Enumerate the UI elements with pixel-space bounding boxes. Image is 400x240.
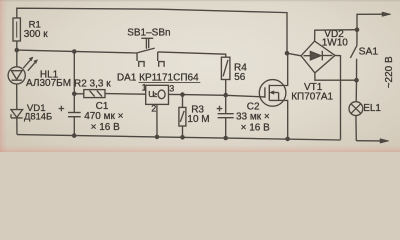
svg-text:300 к: 300 к	[24, 29, 48, 40]
wire bridge top to mains node	[315, 30, 357, 41]
wire LED to VD1	[16, 84, 18, 110]
wire top rail	[17, 8, 287, 53]
svg-text:33 мк ×: 33 мк ×	[236, 112, 270, 123]
label EL1	[363, 103, 381, 114]
resistor R4	[221, 57, 230, 95]
node drain junction	[285, 51, 290, 56]
pin 2 label	[151, 104, 156, 114]
pushbutton SB1-SBn	[137, 38, 164, 67]
label SB1-SBn	[127, 27, 170, 38]
wire mains bottom arrow	[356, 140, 381, 142]
node left rail / button branch	[14, 48, 19, 53]
label SA1	[359, 47, 379, 58]
svg-text:3: 3	[169, 84, 174, 94]
label R1 value	[24, 19, 48, 39]
pin 2 wire	[156, 104, 158, 136]
label VT1	[291, 82, 333, 103]
svg-text:SA1: SA1	[359, 47, 379, 58]
label HL1	[26, 69, 71, 89]
wire left rail to LED	[16, 41, 18, 67]
wire mains top arrow	[357, 14, 383, 30]
transistor VT1 MOSFET	[259, 53, 287, 139]
node SA1 bottom	[354, 78, 359, 83]
switch SA1	[350, 30, 357, 80]
svg-text:470 мк ×: 470 мк ×	[84, 111, 123, 122]
pin 3 label	[169, 84, 174, 94]
resistor R3	[179, 95, 186, 138]
svg-text:× 16 В: × 16 В	[91, 122, 121, 133]
IC DA1	[146, 85, 169, 104]
svg-text:1W10: 1W10	[322, 38, 349, 49]
svg-text:2: 2	[151, 104, 156, 114]
svg-text:× 16 В: × 16 В	[241, 122, 271, 133]
svg-text:≥: ≥	[153, 90, 158, 99]
node R2 branch	[72, 92, 77, 97]
label R3	[187, 105, 209, 125]
wire VD1 to bottom rail	[16, 118, 18, 135]
capacitor C1	[59, 106, 81, 117]
node R3 top	[180, 92, 185, 97]
wire bridge bottom to SA1 node	[315, 73, 357, 80]
svg-text:Д814Б: Д814Б	[24, 110, 52, 121]
label VD2	[322, 29, 349, 48]
wire second rail	[73, 52, 75, 136]
node second rail top	[72, 49, 77, 54]
wire bottom rail	[17, 135, 341, 140]
label C1	[84, 101, 123, 133]
node pin 2 to rail	[155, 135, 160, 140]
svg-text:10 М: 10 М	[187, 114, 209, 125]
node C1 to rail	[72, 133, 77, 138]
node R3 to rail	[180, 135, 185, 140]
capacitor C2	[217, 95, 234, 138]
svg-text:R2 3,3 к: R2 3,3 к	[74, 78, 111, 89]
label DA1 type	[117, 73, 199, 100]
label R2	[74, 78, 111, 89]
svg-text:КП707А1: КП707А1	[291, 92, 333, 103]
wire button feed	[17, 50, 137, 53]
pin 1 label	[142, 83, 147, 93]
svg-text:АЛ307БМ: АЛ307БМ	[26, 78, 71, 89]
svg-text:56: 56	[234, 72, 246, 83]
label R4	[234, 62, 247, 83]
svg-text:~220 В: ~220 В	[384, 56, 395, 88]
wire drain to bridge	[287, 53, 301, 56]
svg-text:EL1: EL1	[363, 103, 381, 114]
svg-text:1: 1	[142, 83, 147, 93]
resistor R1	[13, 18, 20, 41]
label ~220 V	[384, 56, 395, 88]
node C2 to rail	[223, 136, 228, 141]
wire bridge right to bottom rail	[335, 55, 341, 139]
pin 3 wire to gate	[168, 94, 265, 97]
zener VD1	[11, 110, 23, 118]
lamp EL1	[349, 80, 363, 141]
svg-text:SB1–SBn: SB1–SBn	[127, 27, 170, 38]
label C2	[236, 102, 270, 134]
resistor R2	[74, 90, 146, 98]
rectifier bridge VD2	[301, 41, 335, 73]
wire button to R4	[158, 52, 226, 57]
LED HL1	[8, 57, 37, 84]
node source to rail	[285, 137, 290, 142]
label VD1	[24, 103, 52, 121]
node gate wire / R4 / C2	[223, 93, 228, 98]
node mains top	[355, 27, 360, 32]
